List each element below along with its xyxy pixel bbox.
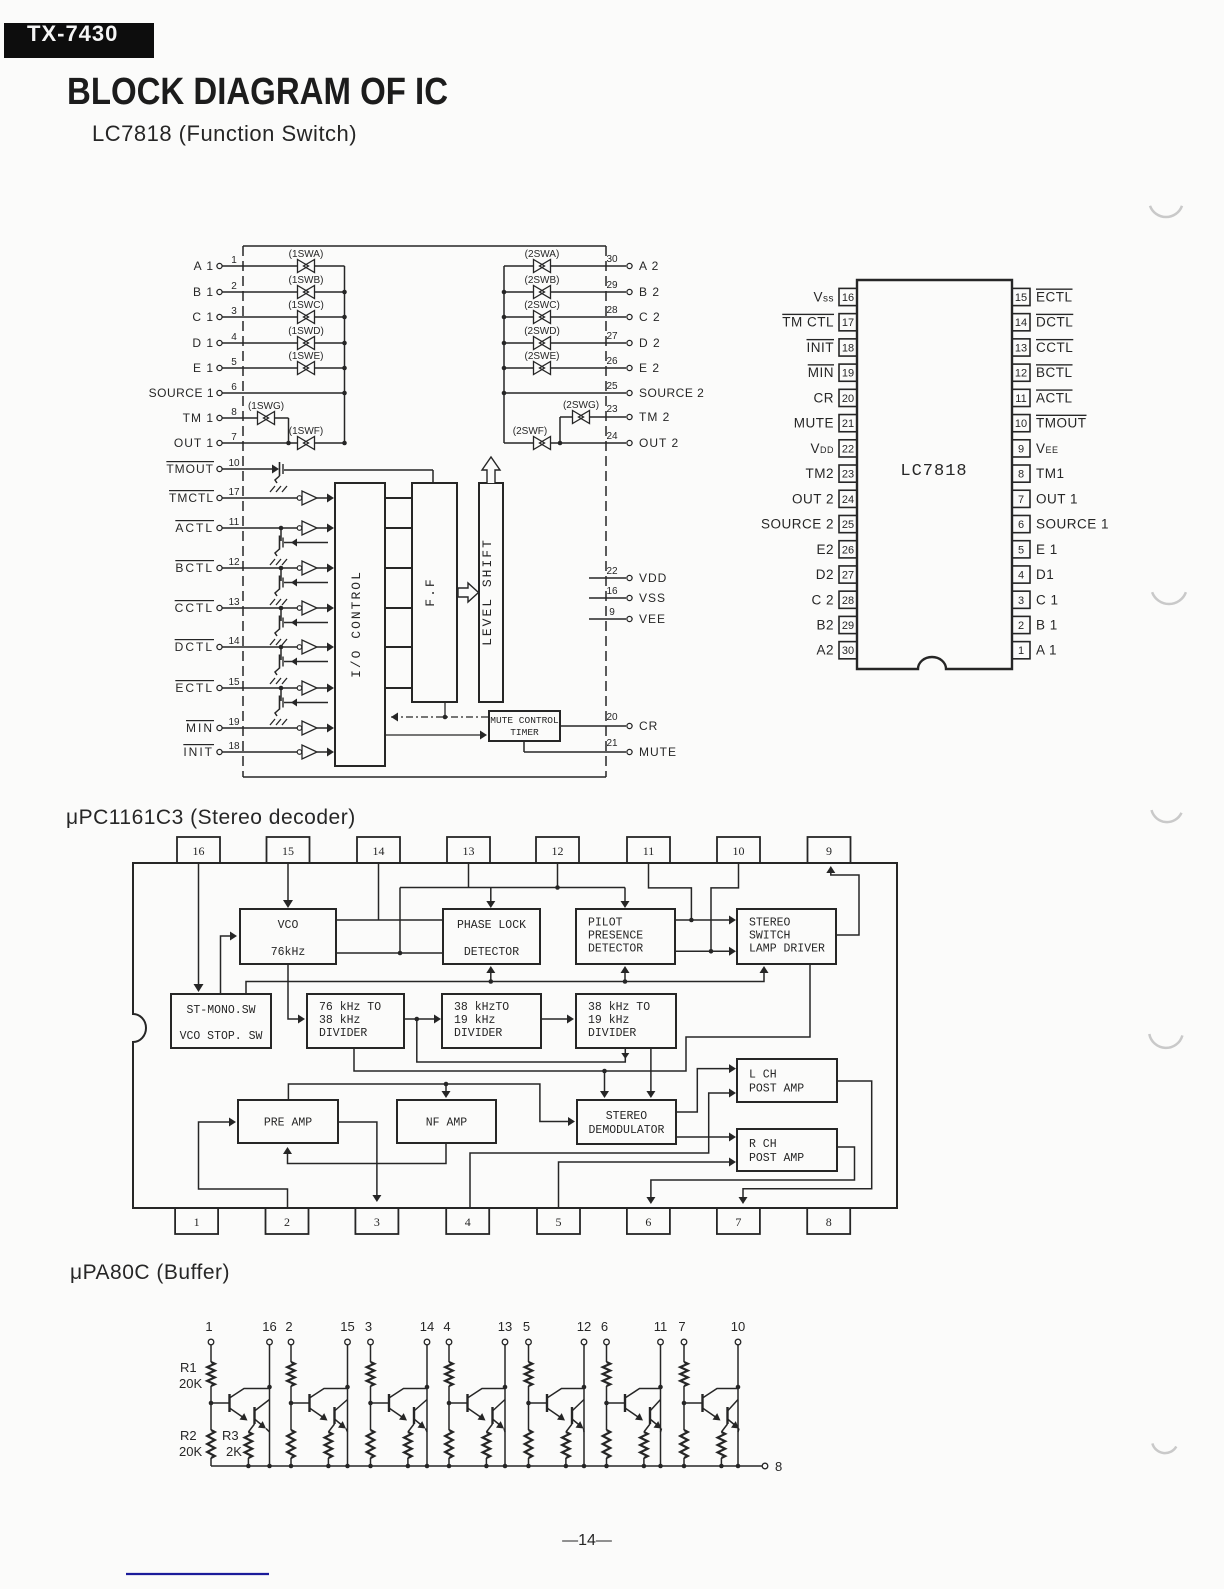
decoder top pin 15 [267, 837, 310, 863]
analog switch (1SWD) [288, 326, 324, 350]
decoder top pin 12 [536, 837, 579, 863]
svg-text:11: 11 [229, 517, 240, 528]
rail junction cell 7 [682, 1464, 687, 1469]
LC7818 chip boundary top [243, 245, 606, 247]
LC7818 chip boundary left (dashed) [242, 246, 244, 777]
svg-text:11: 11 [643, 844, 655, 858]
rail junction cell 5 [526, 1464, 531, 1469]
svg-text:16: 16 [606, 586, 618, 597]
wire pin5 to R CH POST AMP [559, 1158, 737, 1209]
block I/O CONTROL [335, 483, 385, 766]
buffer cell pin 5 input network R1 R2 [523, 1319, 532, 1466]
svg-text:4: 4 [443, 1319, 450, 1334]
svg-text:(1SWB): (1SWB) [289, 275, 324, 286]
svg-text:B 1: B 1 [1036, 617, 1058, 632]
svg-text:MUTE: MUTE [639, 745, 677, 759]
svg-text:(2SWF): (2SWF) [513, 426, 547, 437]
svg-text:5: 5 [1018, 544, 1024, 556]
TMOUT FET Q [270, 462, 287, 492]
section title uPA80C [70, 1261, 230, 1284]
BCTL input buffer [297, 561, 317, 575]
decoder bottom pin 1 [175, 1208, 218, 1234]
svg-text:3: 3 [1018, 595, 1024, 607]
package pin 26 (left) [816, 541, 857, 558]
pin A1 input wire [194, 255, 345, 273]
package pin 13 (right) [1012, 339, 1073, 356]
svg-text:TMOUT: TMOUT [1036, 416, 1087, 431]
wire VCO to PHASE LOCK (upper) with pin14 tap [336, 863, 443, 920]
common rail to pin 8 [211, 1459, 782, 1474]
buffer cell pin 16 collector line [262, 1319, 276, 1468]
svg-text:1: 1 [231, 255, 237, 266]
svg-text:7: 7 [735, 1215, 741, 1229]
svg-text:MUTE: MUTE [794, 416, 834, 431]
svg-text:6: 6 [1018, 519, 1024, 531]
decoder bottom pin 2 [266, 1208, 309, 1234]
svg-text:26: 26 [842, 544, 854, 556]
LC7818 chip boundary right (dashed) [605, 246, 607, 777]
svg-text:POST AMP: POST AMP [749, 1083, 804, 1096]
pin B2 output wire [504, 280, 660, 299]
package pin 10 (right) [1012, 415, 1087, 432]
svg-text:16: 16 [262, 1319, 276, 1334]
wire pin2 to PRE AMP [199, 1118, 288, 1209]
section title LC7818 [92, 121, 357, 146]
pin ACTL wire [175, 517, 334, 535]
level shift up arrow [482, 457, 500, 483]
rail junction cell 6 [604, 1464, 609, 1469]
svg-text:26: 26 [606, 356, 618, 367]
block MUTE CONTROL TIMER [489, 711, 560, 741]
svg-text:23: 23 [606, 404, 618, 415]
svg-text:10: 10 [731, 1319, 745, 1334]
svg-text:SOURCE 1: SOURCE 1 [1036, 517, 1109, 532]
buffer cell pin 1 input network R1 R2 [205, 1319, 214, 1466]
rail junction cell 4 [447, 1464, 452, 1469]
wire MUTE TIMER to I/O CONTROL (dash-dot) [391, 702, 489, 722]
left switch output bus [342, 266, 347, 445]
svg-text:14: 14 [228, 636, 240, 647]
svg-text:R2: R2 [180, 1428, 197, 1443]
svg-text:D1: D1 [1036, 567, 1054, 582]
svg-text:(1SWD): (1SWD) [288, 326, 324, 337]
darlington Q7b [728, 1400, 740, 1433]
svg-text:2: 2 [284, 1215, 290, 1229]
BCTL pull-down FET [270, 566, 328, 605]
svg-text:—14—: —14— [562, 1532, 612, 1549]
svg-text:B 2: B 2 [639, 285, 660, 299]
wire divider1 to divider2 [404, 1015, 441, 1024]
svg-text:19 kHz: 19 kHz [588, 1014, 629, 1027]
svg-text:5: 5 [556, 1215, 562, 1229]
svg-text:15: 15 [340, 1319, 354, 1334]
svg-text:17: 17 [842, 317, 854, 329]
block R CH POST AMP [737, 1129, 837, 1171]
svg-text:ECTL: ECTL [1036, 290, 1073, 305]
analog switch (2SWE) [525, 351, 560, 375]
darlington Q1b [255, 1400, 270, 1433]
block LEVEL SHIFT [479, 483, 503, 702]
decoder top pin 11 [627, 837, 670, 863]
wire DEMOD to R CH POST AMP [676, 1133, 736, 1142]
scan artifact: binder shadow [1149, 1034, 1182, 1048]
rail junction cell 2 [289, 1464, 294, 1469]
decoder top pin 16 [177, 837, 220, 863]
decoder bottom pin 7 [717, 1208, 760, 1234]
svg-text:29: 29 [842, 620, 854, 632]
wire divider2 to divider3 [541, 1015, 574, 1024]
svg-text:B2: B2 [816, 617, 834, 632]
analog switch (2SWC) [524, 300, 560, 324]
svg-text:6: 6 [645, 1215, 651, 1229]
package pin 16 (left) [813, 288, 857, 305]
svg-text:12: 12 [577, 1319, 591, 1334]
svg-text:15: 15 [1015, 292, 1027, 304]
svg-text:24: 24 [842, 494, 854, 506]
svg-text:(1SWF): (1SWF) [289, 426, 323, 437]
svg-text:(2SWC): (2SWC) [524, 300, 560, 311]
pin C1 input wire [192, 306, 344, 324]
svg-text:12: 12 [228, 557, 240, 568]
svg-text:SOURCE 2: SOURCE 2 [639, 386, 704, 400]
wire bus to PHASE LOCK / PILOT tops, pins 13 12 [400, 863, 630, 953]
LC7818 chip boundary bottom [243, 776, 606, 778]
block divider 38k to 19k (1) [442, 994, 541, 1048]
svg-text:14: 14 [420, 1319, 434, 1334]
svg-text:7: 7 [231, 432, 237, 443]
DCTL pull-down FET [270, 645, 328, 684]
wire I/O CONTROL to MUTE TIMER [385, 731, 487, 740]
svg-text:18: 18 [228, 741, 240, 752]
INIT input buffer [297, 745, 317, 759]
block PILOT PRESENCE DETECTOR [576, 909, 675, 964]
svg-text:9: 9 [609, 607, 615, 618]
svg-text:11: 11 [1015, 393, 1026, 405]
svg-text:C 2: C 2 [639, 310, 661, 324]
svg-text:16: 16 [842, 292, 854, 304]
svg-text:38 kHzTO: 38 kHzTO [454, 1001, 509, 1014]
svg-text:DETECTOR: DETECTOR [464, 946, 519, 959]
ECTL input buffer [297, 681, 317, 695]
svg-text:13: 13 [498, 1319, 512, 1334]
wire DEMOD to L CH POST AMP [676, 1064, 736, 1112]
svg-text:A 1: A 1 [1036, 643, 1057, 658]
svg-text:19: 19 [842, 368, 854, 380]
analog switch (2SWG) [563, 400, 599, 424]
TMCTL input buffer [297, 491, 317, 505]
svg-text:21: 21 [842, 418, 854, 430]
package pin 3 (right) [1012, 591, 1059, 608]
analog switch (1SWA) [289, 249, 324, 273]
svg-text:2K: 2K [226, 1444, 242, 1459]
resistor R3 of cell 2 [325, 1424, 335, 1468]
svg-text:24: 24 [606, 431, 618, 442]
wire L CH POST AMP to pin7 [739, 1081, 872, 1204]
ECTL pull-down FET [270, 686, 328, 725]
svg-text:A 2: A 2 [639, 259, 659, 273]
svg-text:12: 12 [552, 844, 564, 858]
pin DCTL wire [175, 636, 334, 654]
decoder bottom pin 3 [355, 1208, 398, 1234]
section title uPC1161C3 [66, 806, 356, 829]
svg-text:PRE AMP: PRE AMP [264, 1117, 312, 1130]
svg-text:DIVIDER: DIVIDER [588, 1027, 636, 1040]
svg-text:21: 21 [606, 738, 618, 749]
resistor R3 of cell 6 [640, 1424, 650, 1468]
darlington Q7a [684, 1389, 738, 1421]
darlington Q2b [335, 1400, 348, 1433]
package pin 7 (right) [1012, 490, 1078, 507]
svg-text:(2SWD): (2SWD) [524, 326, 560, 337]
analog switch (2SWF) [513, 426, 551, 450]
svg-text:(2SWB): (2SWB) [525, 275, 560, 286]
CCTL pull-down FET [270, 606, 328, 645]
svg-text:CCTL: CCTL [1036, 340, 1073, 355]
pin C2 output wire [504, 305, 661, 324]
block ST-MONO SW / VCO STOP SW [171, 994, 271, 1048]
wire pin16 to ST-MONO.SW [194, 863, 204, 992]
block divider 38k to 19k (2) [576, 994, 676, 1048]
wire PILOT to STEREO SWITCH (lower) with pin10 tap [675, 863, 739, 956]
resistor R3 of cell 4 [483, 1424, 493, 1468]
svg-text:R1: R1 [180, 1360, 197, 1375]
analog switch (2SWA) [525, 249, 560, 273]
pin TM1 wire [183, 407, 289, 443]
svg-text:ST-MONO.SW: ST-MONO.SW [186, 1004, 255, 1017]
pin D1 input wire [192, 332, 344, 350]
decoder bottom pin 5 [537, 1208, 580, 1234]
svg-text:9: 9 [1018, 443, 1024, 455]
svg-text:TX-7430: TX-7430 [27, 21, 118, 46]
svg-text:(1SWC): (1SWC) [288, 300, 324, 311]
package pin 11 (right) [1012, 389, 1073, 406]
package pin 4 (right) [1012, 566, 1054, 583]
pin OUT1 wire [174, 432, 345, 450]
right switch bus [502, 266, 507, 443]
analog switch (1SWE) [289, 351, 324, 375]
svg-text:76kHz: 76kHz [271, 946, 306, 959]
svg-text:μPA80C (Buffer): μPA80C (Buffer) [70, 1261, 230, 1284]
package pin 22 (left) [810, 440, 857, 457]
analog switch (1SWF) [289, 426, 323, 450]
package pin 28 (left) [811, 591, 857, 608]
rail junction cell 3 [368, 1464, 373, 1469]
svg-text:15: 15 [282, 844, 294, 858]
package pin 29 (left) [816, 616, 857, 633]
scan artifact: binder shadow [1152, 810, 1182, 822]
svg-text:SWITCH: SWITCH [749, 930, 790, 943]
svg-text:E 1: E 1 [1036, 542, 1058, 557]
svg-text:(2SWE): (2SWE) [525, 351, 560, 362]
model label black box TX-7430 [4, 21, 154, 58]
svg-text:OUT 1: OUT 1 [1036, 491, 1078, 506]
block NF AMP [397, 1100, 496, 1143]
wire PRE AMP output to pin3 [338, 1122, 381, 1202]
svg-text:25: 25 [842, 519, 854, 531]
svg-text:5: 5 [231, 357, 237, 368]
svg-text:9: 9 [826, 844, 832, 858]
svg-text:(1SWE): (1SWE) [289, 351, 324, 362]
decoder top pin 9 [808, 837, 851, 863]
LC7818 package outline with notch [857, 280, 1012, 669]
package pin 20 (left) [814, 389, 858, 406]
buffer cell pin 6 input network R1 R2 [601, 1319, 610, 1466]
svg-text:D2: D2 [816, 567, 834, 582]
package pin 25 (left) [761, 515, 857, 532]
svg-text:TM 2: TM 2 [639, 410, 670, 424]
svg-text:A2: A2 [816, 643, 834, 658]
svg-text:μPC1161C3 (Stereo decoder): μPC1161C3 (Stereo decoder) [66, 806, 356, 829]
svg-text:VSS: VSS [639, 591, 666, 605]
svg-text:SOURCE 2: SOURCE 2 [761, 517, 834, 532]
svg-text:I/O CONTROL: I/O CONTROL [349, 570, 364, 678]
svg-text:76 kHz TO: 76 kHz TO [319, 1001, 381, 1014]
scan artifact: binder shadow [1152, 1443, 1176, 1453]
wire pin15 to VCO [283, 863, 293, 908]
wire STEREO SWITCH to pin9 [826, 866, 859, 935]
package pin 19 (left) [808, 364, 857, 381]
package pin 24 (left) [792, 490, 857, 507]
resistor labels R1 R2 R3 [179, 1360, 242, 1459]
package pin 21 (left) [794, 415, 857, 432]
scan artifact: binder shadow [1152, 592, 1186, 604]
pin CR wire [560, 712, 658, 733]
package pin 2 (right) [1012, 616, 1058, 633]
svg-text:PILOT: PILOT [588, 917, 623, 930]
svg-text:20: 20 [606, 712, 618, 723]
pin ECTL wire [175, 677, 334, 695]
wire divider1 output to STEREO SWITCH bottom and DEMOD [354, 963, 810, 1098]
block PHASE LOCK DETECTOR [443, 909, 540, 964]
uPC1161C3 package outline with notch [133, 863, 897, 1208]
DCTL input buffer [297, 640, 317, 654]
svg-text:15: 15 [228, 677, 240, 688]
svg-text:OUT 2: OUT 2 [639, 436, 679, 450]
svg-text:BCTL: BCTL [1036, 365, 1073, 380]
svg-text:8: 8 [775, 1459, 782, 1474]
package pin 23 (left) [806, 465, 858, 482]
pin E2 output wire [504, 356, 660, 375]
svg-text:(2SWA): (2SWA) [525, 249, 560, 260]
wire VCO to PHASE LOCK (lower) [336, 951, 443, 956]
buffer cell pin 3 input network R1 R2 [365, 1319, 374, 1466]
svg-text:E2: E2 [816, 542, 834, 557]
svg-text:MIN: MIN [186, 721, 214, 735]
decoder top pin 13 [447, 837, 490, 863]
buffer cell pin 13 collector line [498, 1319, 512, 1468]
svg-text:1: 1 [205, 1319, 212, 1334]
block divider 76k to 38k [307, 994, 404, 1048]
svg-text:13: 13 [463, 844, 475, 858]
svg-text:30: 30 [842, 645, 854, 657]
svg-text:VCO STOP. SW: VCO STOP. SW [180, 1030, 263, 1043]
svg-text:3: 3 [231, 306, 237, 317]
svg-text:23: 23 [842, 469, 854, 481]
svg-text:8: 8 [826, 1215, 832, 1229]
pin VEE stub [589, 607, 666, 626]
svg-text:PHASE LOCK: PHASE LOCK [457, 919, 526, 932]
analog switch (2SWD) [524, 326, 560, 350]
svg-text:TM2: TM2 [806, 466, 835, 481]
F.F to LEVEL SHIFT arrow [458, 583, 479, 602]
svg-text:2: 2 [231, 281, 237, 292]
wire R CH POST AMP to pin6 [646, 1147, 854, 1204]
svg-text:TIMER: TIMER [510, 727, 539, 738]
svg-text:D 2: D 2 [639, 336, 661, 350]
svg-text:20K: 20K [179, 1376, 202, 1391]
darlington Q6a [607, 1389, 661, 1421]
svg-text:DEMODULATOR: DEMODULATOR [589, 1124, 665, 1137]
svg-text:18: 18 [842, 342, 854, 354]
decoder bottom pin 4 [446, 1208, 489, 1234]
svg-text:(1SWG): (1SWG) [248, 401, 284, 412]
svg-text:1: 1 [194, 1215, 200, 1229]
svg-text:CCTL: CCTL [175, 601, 214, 615]
analog switch (2SWB) [525, 275, 560, 299]
svg-text:TM 1: TM 1 [183, 411, 214, 425]
MIN input buffer [297, 721, 317, 735]
svg-text:6: 6 [601, 1319, 608, 1334]
svg-text:1: 1 [1018, 645, 1024, 657]
svg-text:R CH: R CH [749, 1138, 777, 1151]
wire divider3 feedback loop [417, 1019, 630, 1062]
decoder top pin 10 [717, 837, 760, 863]
wire ST-MONO to VCO [221, 932, 238, 995]
svg-text:3: 3 [374, 1215, 380, 1229]
svg-text:16: 16 [193, 844, 205, 858]
svg-text:22: 22 [842, 443, 854, 455]
package pin 14 (right) [1012, 314, 1073, 331]
svg-text:38 kHz: 38 kHz [319, 1014, 360, 1027]
svg-text:BCTL: BCTL [175, 561, 214, 575]
svg-text:INIT: INIT [807, 340, 835, 355]
package pin 30 (left) [816, 642, 857, 659]
svg-text:NF AMP: NF AMP [426, 1117, 468, 1130]
wire divider3 to STEREO DEMODULATOR [646, 1048, 655, 1098]
svg-text:20: 20 [842, 393, 854, 405]
svg-text:LAMP DRIVER: LAMP DRIVER [749, 943, 825, 956]
svg-text:2: 2 [1018, 620, 1024, 632]
svg-text:DIVIDER: DIVIDER [319, 1027, 367, 1040]
svg-text:4: 4 [465, 1215, 471, 1229]
svg-text:MUTE CONTROL: MUTE CONTROL [490, 715, 559, 726]
svg-text:CR: CR [814, 390, 835, 405]
svg-text:29: 29 [606, 280, 618, 291]
decoder bottom pin 8 [807, 1208, 850, 1234]
svg-text:VDD: VDD [639, 571, 667, 585]
darlington Q3b [414, 1400, 427, 1433]
darlington Q5b [572, 1400, 584, 1433]
svg-text:13: 13 [228, 597, 240, 608]
block F.F [412, 483, 457, 702]
wire PRE AMP top bus to NF AMP and DEMOD [288, 1082, 575, 1126]
svg-text:11: 11 [654, 1319, 668, 1334]
pin D2 output wire [504, 331, 661, 350]
svg-text:OUT 1: OUT 1 [174, 436, 214, 450]
svg-text:10: 10 [1015, 418, 1027, 430]
svg-text:L CH: L CH [749, 1069, 777, 1082]
buffer cell pin 15 collector line [340, 1319, 354, 1468]
block STEREO DEMODULATOR [577, 1100, 676, 1144]
pin SOURCE1 input wire [149, 382, 345, 400]
pin TMOUT wire with output FET [166, 458, 433, 483]
analog switch (1SWG) [248, 401, 284, 425]
svg-text:19 kHz: 19 kHz [454, 1014, 495, 1027]
svg-text:7: 7 [678, 1319, 685, 1334]
wire ST-MONO feedback bus to detector bottoms [246, 966, 769, 994]
svg-text:14: 14 [373, 844, 385, 858]
resistor R3 of cell 1 [245, 1424, 255, 1468]
